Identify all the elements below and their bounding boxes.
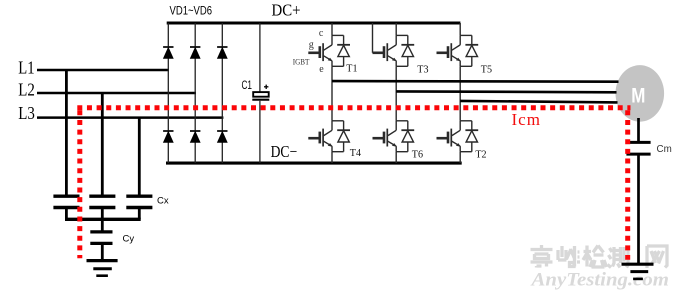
transistor T5 (IGBT) with freewheeling diode bbox=[437, 23, 493, 76]
capacitor Cx2 bbox=[89, 196, 115, 219]
svg-text:T5: T5 bbox=[481, 64, 493, 76]
wire drop from L1 to Cx1 bbox=[65, 70, 68, 195]
wire from Cy to ground bbox=[101, 243, 104, 260]
wire motor phase line U bbox=[332, 80, 619, 83]
transistor T1 (IGBT) with freewheeling diode bbox=[293, 23, 358, 75]
capacitor Cx1 bbox=[53, 196, 79, 219]
watermark char wang bbox=[647, 246, 667, 268]
svg-text:T4: T4 bbox=[350, 147, 362, 159]
wire motor to Cm bbox=[637, 118, 640, 142]
svg-text:Icm: Icm bbox=[512, 110, 541, 129]
wire Icm left vertical red dotted bbox=[77, 110, 82, 258]
wire from bus down to Cy bbox=[101, 219, 104, 232]
svg-text:DC−: DC− bbox=[271, 142, 298, 161]
ground (right, motor side) bbox=[622, 264, 654, 279]
wire Cm to ground bbox=[637, 154, 640, 263]
wire DC- bus bbox=[166, 162, 462, 165]
svg-text:AnyTesting.com: AnyTesting.com bbox=[530, 269, 669, 290]
svg-text:g: g bbox=[309, 39, 314, 50]
capacitor Cx3 bbox=[126, 196, 152, 219]
svg-text:e: e bbox=[319, 64, 324, 75]
ground (left) bbox=[87, 261, 118, 276]
transistor T4 (IGBT) with freewheeling diode bbox=[308, 121, 361, 163]
wire L3 bbox=[37, 116, 223, 119]
wire drop from L3 to Cx3 bbox=[138, 118, 141, 195]
watermark char yu bbox=[558, 246, 580, 267]
svg-text:L3: L3 bbox=[18, 103, 35, 123]
svg-text:IGBT: IGBT bbox=[293, 57, 310, 67]
capacitor C1 (electrolytic) bbox=[252, 23, 269, 163]
svg-text:Cx: Cx bbox=[157, 196, 169, 207]
svg-text:DC+: DC+ bbox=[272, 1, 301, 20]
wire phase V junction vertical bbox=[395, 66, 397, 121]
diode VD4 bbox=[163, 131, 173, 142]
diode VD1 bbox=[163, 47, 173, 58]
watermark char jian bbox=[583, 246, 607, 268]
wire L1 bbox=[37, 69, 169, 72]
wire rectifier leg 2 bbox=[194, 23, 196, 163]
svg-text:C1: C1 bbox=[242, 80, 253, 92]
svg-text:M: M bbox=[631, 84, 645, 108]
diode VD6 bbox=[190, 131, 200, 142]
wire phase W junction vertical bbox=[459, 66, 461, 121]
transistor T2 (IGBT) with freewheeling diode bbox=[437, 121, 487, 163]
wire phase U junction vertical bbox=[331, 66, 333, 121]
diode VD3 bbox=[190, 47, 200, 58]
diode VD5 bbox=[217, 47, 227, 58]
watermark char ce bbox=[608, 246, 629, 268]
svg-text:Cm: Cm bbox=[657, 144, 672, 155]
svg-text:T2: T2 bbox=[475, 148, 486, 160]
wire DC+ bus bbox=[167, 21, 461, 24]
transistor T6 (IGBT) with freewheeling diode bbox=[373, 121, 424, 163]
transistor T3 (IGBT) with freewheeling diode bbox=[373, 23, 429, 76]
capacitor Cy bbox=[90, 232, 112, 244]
wire rectifier leg 3 bbox=[221, 23, 223, 163]
svg-text:T1: T1 bbox=[346, 62, 357, 74]
capacitor Cm bbox=[626, 142, 650, 154]
wire gate riser of T3 bbox=[372, 23, 374, 53]
wire rectifier leg 1 bbox=[167, 23, 169, 163]
svg-text:c: c bbox=[319, 28, 324, 39]
svg-text:L2: L2 bbox=[18, 80, 35, 100]
svg-text:VD1~VD6: VD1~VD6 bbox=[170, 3, 213, 17]
wire motor phase line W bbox=[460, 101, 617, 103]
wire L2 bbox=[37, 92, 196, 95]
svg-text:Cy: Cy bbox=[123, 233, 135, 244]
watermark char jia bbox=[531, 245, 553, 268]
diode VD2 bbox=[217, 131, 227, 142]
svg-text:T3: T3 bbox=[417, 64, 429, 76]
svg-text:T6: T6 bbox=[412, 148, 424, 160]
wire motor phase line V bbox=[396, 90, 616, 94]
wire Icm horizontal red dotted bbox=[77, 105, 630, 110]
svg-text:L1: L1 bbox=[18, 58, 34, 78]
wire bus joining Cx bottoms bbox=[65, 218, 141, 221]
wire Icm right vertical red dotted bbox=[625, 110, 630, 259]
wire drop from L2 to Cx2 bbox=[101, 93, 104, 195]
